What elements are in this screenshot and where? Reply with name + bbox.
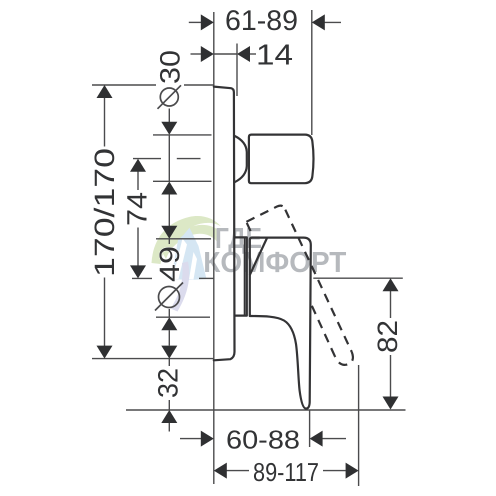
center line handle y=278.4 xyxy=(132,277,152,279)
dim 74 line x=138 xyxy=(137,171,139,190)
below 32 xyxy=(168,423,170,432)
arrow 32 top (down) xyxy=(161,346,177,359)
svg-text:49: 49 xyxy=(154,246,185,282)
extension line wall/back x=214 xyxy=(213,12,215,484)
knob stem neck xyxy=(234,136,247,182)
extension line bottom of plate y=358.6 xyxy=(92,358,214,360)
plate escutcheon side view xyxy=(214,87,235,361)
svg-text:30: 30 xyxy=(155,50,186,84)
handle sleeve xyxy=(235,237,247,315)
extension line plate front x=237 xyxy=(236,44,238,97)
svg-text:32: 32 xyxy=(153,368,184,398)
arrow 32 bottom (up) xyxy=(161,410,177,423)
svg-text:89-117: 89-117 xyxy=(253,457,319,487)
svg-text:14: 14 xyxy=(256,40,293,72)
arrow 74 top xyxy=(130,159,146,172)
arrow 61-89 left xyxy=(201,14,214,30)
arrow dia30 bottom (up) xyxy=(161,182,177,195)
arrow dia49 bottom (up) xyxy=(161,317,177,330)
arrow 14 right xyxy=(237,46,250,62)
arrow 170/170 top xyxy=(97,85,113,98)
extension line handle tip x=309.6 xyxy=(309,410,311,448)
dim 89-117 y=470.6 xyxy=(227,470,250,472)
handle grip xyxy=(250,238,311,409)
dashed lever lower edge visible xyxy=(309,300,335,356)
svg-text:82: 82 xyxy=(372,320,403,353)
arrow 61-89 right xyxy=(312,14,325,30)
arrow 89-117 right xyxy=(346,463,359,479)
dashed lever upper edge xyxy=(285,210,352,352)
arrow 89-117 left xyxy=(214,463,227,479)
arrow 82 top xyxy=(383,278,399,291)
blue mountain xyxy=(171,228,207,280)
watermark logo emblem xyxy=(152,216,222,311)
extension line dashed-lever tip x=358.6 xyxy=(358,365,360,486)
svg-text:170/170: 170/170 xyxy=(89,148,120,277)
dia30 symbol circle xyxy=(160,88,178,106)
dim 60-88 y=438.6 xyxy=(180,438,201,440)
svg-text:61-89: 61-89 xyxy=(225,5,298,37)
extension line top of plate y=85 xyxy=(92,84,156,86)
arrow 14 left xyxy=(201,46,214,62)
arrow 60-88 right xyxy=(310,431,323,447)
dim 82 line x=390.5 xyxy=(390,291,392,318)
arrow 170/170 bottom xyxy=(97,346,113,359)
dim 170/170 line x=104.5 xyxy=(104,98,106,147)
arrow dia30 top (down) xyxy=(161,122,177,135)
extension line handle lowest y=410 xyxy=(126,409,406,411)
lavender stripe xyxy=(171,262,190,312)
dia30 column x=169.3 xyxy=(168,109,170,123)
dim 14 line y=54 xyxy=(214,53,237,55)
svg-text:КОМФОРТ: КОМФОРТ xyxy=(203,247,346,279)
dia49 symbol circle xyxy=(159,287,180,308)
arrow 60-88 left xyxy=(201,431,214,447)
dim 61-89 tails y=22.4 xyxy=(189,21,201,23)
extension line handle top y=238.8 xyxy=(156,238,211,240)
extension line knob top y=134.9 xyxy=(153,134,212,136)
arrow 82 bottom xyxy=(383,397,399,410)
32 span stubs xyxy=(168,359,170,366)
knob body dia30 xyxy=(249,135,314,184)
handle crease line xyxy=(250,238,267,275)
dia49 column stubs xyxy=(168,239,170,244)
green swoosh xyxy=(152,216,222,264)
svg-text:74: 74 xyxy=(122,192,153,226)
between dia49 and 32 xyxy=(168,330,170,345)
arrow dia49 top (down) xyxy=(161,226,177,239)
extension line knob bottom y=181.3 xyxy=(153,180,212,182)
dashed lever tip cap xyxy=(335,352,353,365)
dashed lever butt edge xyxy=(246,206,285,222)
extension line knob front x=311.8 xyxy=(311,10,313,135)
center line knob y=158.6 xyxy=(133,158,161,160)
extension line handle bottom y=317.2 xyxy=(156,316,210,318)
handle sleeve inner line xyxy=(244,237,246,315)
svg-text:60-88: 60-88 xyxy=(226,425,300,455)
dashed lever lower edge near butt xyxy=(247,223,254,237)
arrow 74 bottom xyxy=(130,265,146,278)
